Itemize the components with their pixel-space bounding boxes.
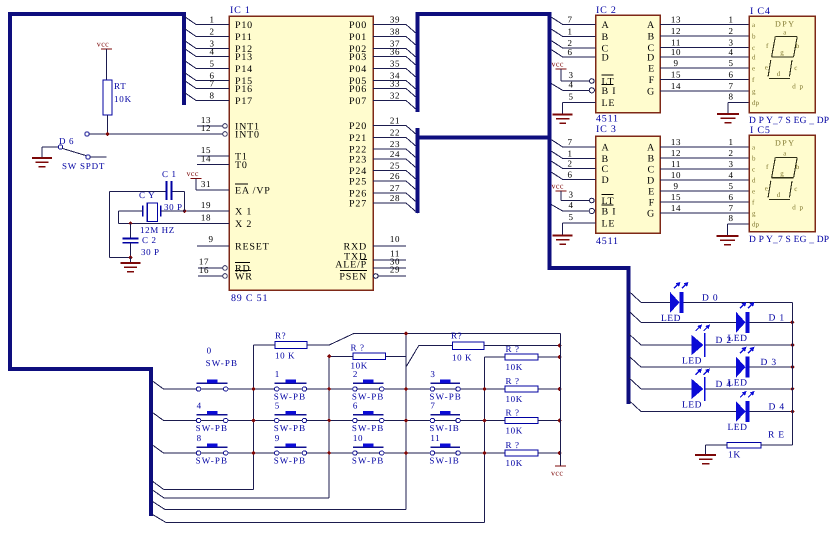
- node keypad junction: [327, 418, 331, 422]
- svg-text:C 2: C 2: [142, 235, 157, 245]
- label D 4: [769, 403, 785, 413]
- svg-text:10: 10: [390, 234, 400, 244]
- wire P00 pin 39: [373, 15, 418, 35]
- node keypad junction: [251, 387, 255, 391]
- pin label ALE/P: [335, 260, 367, 271]
- svg-text:29: 29: [390, 265, 400, 275]
- diode D2 LED: [692, 325, 711, 358]
- svg-text:24: 24: [390, 149, 400, 159]
- svg-text:4511: 4511: [596, 236, 619, 247]
- pin label EA/VP: [235, 184, 271, 197]
- pin label IC2 D: [602, 53, 610, 64]
- svg-text:d: d: [777, 191, 781, 199]
- ground for IC2 LE: [553, 103, 573, 124]
- svg-text:P20: P20: [349, 121, 367, 132]
- wire IC2 LT pin 3: [561, 70, 590, 81]
- node LED rail junction 1: [790, 320, 794, 324]
- wire column 1 vertical: [253, 345, 255, 489]
- pin label IC3 A: [602, 143, 610, 154]
- svg-text:6: 6: [567, 47, 572, 57]
- svg-text:8: 8: [728, 213, 733, 223]
- pin label IC3 B: [602, 154, 609, 165]
- label SW-PB 10: [352, 456, 385, 466]
- label 10K col2: [351, 361, 368, 371]
- svg-text:1K: 1K: [728, 451, 741, 461]
- label D 1: [769, 313, 785, 323]
- label key 6: [353, 401, 358, 411]
- diode D0 LED: [670, 282, 689, 313]
- wire P26 pin 27: [373, 183, 418, 203]
- wire INT0 pin 12 from switch: [89, 123, 223, 134]
- svg-text:e: e: [752, 188, 755, 196]
- label D 2: [716, 336, 732, 346]
- wire IC5 dp pin 8 to ground: [728, 213, 750, 236]
- svg-text:c: c: [794, 185, 798, 193]
- svg-text:D P Y_7 S EG _ DP: D P Y_7 S EG _ DP: [749, 235, 829, 245]
- label key 11: [430, 433, 440, 443]
- wire IC2 input A pin 7: [551, 15, 595, 25]
- label IC5: [750, 125, 771, 136]
- svg-text:2: 2: [728, 26, 733, 36]
- label key 1: [275, 369, 280, 379]
- wire P25 pin 26: [373, 171, 418, 191]
- wire LED row 2: [629, 311, 792, 322]
- svg-text:22: 22: [390, 128, 400, 138]
- svg-text:e: e: [765, 64, 769, 72]
- switch SW4: [196, 411, 227, 423]
- node LED rail junction 3: [790, 365, 794, 369]
- svg-text:12: 12: [671, 26, 681, 36]
- svg-text:12M HZ: 12M HZ: [140, 225, 175, 235]
- bus: P0 bus to IC2 and main vertical bus to IC3/LEDs: [418, 14, 629, 404]
- switch SW1: [275, 380, 307, 392]
- svg-text:14: 14: [201, 154, 211, 164]
- svg-text:33: 33: [390, 79, 400, 89]
- wire column 3 vertical: [405, 334, 407, 510]
- svg-text:10K: 10K: [351, 361, 368, 371]
- label DPY inside IC4: [775, 20, 796, 29]
- pin label P24: [349, 166, 367, 177]
- pin label IC3 out E: [648, 187, 655, 198]
- wire IC3 D to IC5 pin 4: [660, 170, 749, 180]
- svg-text:e: e: [752, 65, 755, 73]
- wire C1 top rail: [110, 192, 185, 212]
- node keypad junction: [404, 418, 408, 422]
- svg-text:IC 2: IC 2: [596, 5, 617, 16]
- svg-text:d: d: [752, 177, 756, 185]
- switch SW0: [196, 380, 227, 392]
- switch SW8: [196, 444, 227, 456]
- svg-text:10 K: 10 K: [275, 351, 295, 361]
- wire IC3 A to IC5 pin 1: [660, 137, 749, 147]
- label SW-PB 3: [429, 392, 462, 402]
- svg-text:D 0: D 0: [702, 293, 718, 303]
- label key 9: [275, 433, 280, 443]
- pin label IC3 LT: [602, 195, 615, 208]
- wire return 1: [153, 481, 254, 489]
- svg-text:P17: P17: [235, 96, 253, 107]
- label LED 5: [728, 423, 748, 433]
- label IC1: [230, 5, 251, 16]
- pin bubble RD: [223, 266, 228, 271]
- label SW-PB 9: [274, 456, 307, 466]
- pin label RESET: [235, 242, 270, 253]
- svg-text:15: 15: [671, 70, 681, 80]
- pin label X2: [235, 219, 252, 230]
- svg-text:12: 12: [671, 148, 681, 158]
- svg-text:3: 3: [728, 159, 733, 169]
- wire IC2 input C pin 2: [551, 38, 595, 48]
- svg-text:f: f: [766, 163, 769, 171]
- wire IC2 D to IC4 pin 4: [660, 47, 749, 57]
- svg-text:32: 32: [390, 91, 400, 101]
- svg-text:b: b: [752, 33, 756, 41]
- svg-text:I C5: I C5: [750, 125, 771, 136]
- svg-text:5: 5: [209, 59, 214, 69]
- wire P13 pin 4: [185, 47, 230, 57]
- pin label P04: [349, 64, 367, 75]
- svg-text:R ?: R ?: [506, 344, 520, 354]
- svg-text:g: g: [780, 49, 784, 57]
- wire return 3: [153, 502, 407, 510]
- svg-text:F: F: [649, 75, 655, 86]
- svg-text:23: 23: [390, 139, 400, 149]
- svg-text:dp: dp: [752, 99, 760, 107]
- pin label IC2 out G: [647, 87, 655, 98]
- wire IC3 LE pin 5: [563, 212, 596, 223]
- wire IC3 B to IC5 pin 2: [660, 148, 749, 158]
- svg-text:3: 3: [568, 70, 573, 80]
- svg-text:2: 2: [209, 27, 214, 37]
- node D6 throw lower: [86, 155, 107, 159]
- svg-text:R?: R?: [451, 331, 462, 341]
- wire IC3 C to IC5 pin 3: [660, 159, 749, 169]
- svg-text:30 P: 30 P: [141, 247, 160, 257]
- svg-text:8: 8: [209, 91, 214, 101]
- svg-text:a: a: [783, 29, 787, 37]
- wire IC2 B to IC4 pin 2: [660, 26, 749, 36]
- wire X1 pin 19: [185, 200, 230, 211]
- svg-text:SW-PB: SW-PB: [274, 456, 307, 466]
- svg-text:R ?: R ?: [506, 440, 520, 450]
- svg-text:P00: P00: [349, 20, 367, 31]
- label key 10: [353, 433, 363, 443]
- ground for RE: [695, 445, 716, 464]
- wire LED row 3: [629, 334, 792, 345]
- wire LED row 6: [629, 401, 792, 412]
- svg-text:5: 5: [275, 401, 280, 411]
- svg-text:C Y: C Y: [139, 190, 155, 200]
- svg-text:1: 1: [728, 15, 733, 25]
- svg-text:IC 3: IC 3: [596, 124, 617, 135]
- svg-text:D 2: D 2: [716, 336, 732, 346]
- switch SW7: [430, 411, 460, 423]
- label LED 2: [682, 357, 702, 367]
- svg-text:P13: P13: [235, 52, 253, 63]
- pin label P05: [349, 76, 367, 87]
- resistor RE: [706, 442, 793, 448]
- switch SW10: [353, 444, 384, 456]
- svg-text:SW-PB: SW-PB: [274, 423, 307, 433]
- svg-text:10K: 10K: [114, 94, 132, 104]
- svg-text:P04: P04: [349, 64, 367, 75]
- node keypad junction: [251, 451, 255, 455]
- label SW SPDT: [62, 161, 105, 171]
- svg-text:WR: WR: [235, 272, 253, 283]
- ground for crystal: [121, 258, 141, 272]
- label R? col2: [351, 343, 365, 353]
- node keypad junction: [482, 418, 486, 422]
- svg-text:21: 21: [390, 116, 400, 126]
- node R? col3 right junction: [557, 344, 561, 348]
- svg-text:vcc: vcc: [552, 182, 564, 191]
- svg-text:10K: 10K: [506, 426, 523, 436]
- ground for IC3 LE: [553, 223, 573, 244]
- svg-text:B I: B I: [602, 207, 617, 218]
- resistor R? row pull-up 1: [505, 354, 560, 360]
- wire IC3 LT pin 3: [561, 190, 590, 201]
- svg-text:10: 10: [671, 170, 681, 180]
- svg-text:A: A: [647, 143, 655, 154]
- svg-text:P21: P21: [349, 133, 367, 144]
- label D 0: [702, 293, 718, 303]
- node rail junction row 4: [557, 451, 561, 455]
- svg-text:d: d: [777, 70, 781, 78]
- IC U3: 4511 BCD decoder IC3 body: [596, 136, 661, 233]
- wire INT1 pin 13: [197, 115, 223, 126]
- pin label P16: [235, 84, 253, 95]
- power vcc for EA pin 31: [187, 169, 202, 190]
- wire keypad row 1: [153, 381, 506, 389]
- segment letters IC4: [752, 21, 760, 107]
- svg-text:3: 3: [568, 190, 573, 200]
- label D 4: [716, 380, 732, 390]
- wire IC3 E to IC5 pin 5: [660, 181, 749, 191]
- label C2: [142, 235, 157, 245]
- svg-text:a: a: [783, 150, 787, 158]
- wire IC3 input A pin 7: [551, 137, 595, 147]
- svg-text:SW-IB: SW-IB: [429, 456, 460, 466]
- switch D6 SPDT common contact: [58, 145, 62, 149]
- svg-text:7: 7: [728, 203, 733, 213]
- label SW-PB 2: [352, 392, 385, 402]
- wire RT bottom to INT0 net: [107, 115, 109, 134]
- wire IC2 input D pin 6: [551, 47, 595, 57]
- svg-text:P10: P10: [235, 20, 253, 31]
- label LED 0: [661, 314, 681, 324]
- wire keypad vcc rail: [560, 334, 562, 466]
- wire IC3 input D pin 6: [551, 170, 595, 180]
- wire TXD pin 11: [373, 249, 406, 261]
- svg-text:P11: P11: [235, 32, 253, 43]
- label 10K row 3: [506, 426, 523, 436]
- node rail junction col3: [404, 331, 408, 335]
- pin label P07: [349, 96, 367, 107]
- svg-text:RESET: RESET: [235, 242, 270, 253]
- switch SW5: [275, 411, 307, 423]
- label SW-PB 4: [196, 423, 229, 433]
- svg-text:D 1: D 1: [769, 313, 785, 323]
- pin label P27: [349, 199, 367, 210]
- label C1: [162, 169, 177, 179]
- svg-text:1: 1: [209, 15, 214, 25]
- pin label IC3 out B: [648, 154, 655, 165]
- svg-text:12: 12: [201, 123, 211, 133]
- node rail junction row 2: [557, 387, 561, 391]
- wire P17 pin 8: [185, 91, 230, 101]
- ground for IC5 dp: [717, 236, 739, 245]
- svg-text:C 1: C 1: [162, 169, 177, 179]
- svg-text:11: 11: [671, 159, 681, 169]
- node LED rail junction 2: [790, 343, 794, 347]
- pin label P15: [235, 76, 253, 87]
- svg-text:c: c: [752, 44, 755, 52]
- svg-text:g: g: [752, 88, 756, 96]
- svg-text:1: 1: [275, 369, 280, 379]
- wire P10 pin 1: [185, 15, 230, 25]
- svg-text:4: 4: [568, 200, 573, 210]
- wire P07 pin 32: [373, 91, 418, 111]
- svg-text:0: 0: [207, 346, 212, 356]
- label SW-PB 5: [274, 423, 307, 433]
- svg-text:LE: LE: [602, 98, 616, 109]
- wire P01 pin 38: [373, 27, 418, 47]
- node keypad junction: [482, 387, 486, 391]
- wire IC2 input B pin 1: [551, 27, 595, 37]
- svg-text:13: 13: [671, 15, 681, 25]
- svg-text:dp: dp: [752, 221, 760, 229]
- wire P14 pin 5: [185, 59, 230, 69]
- label 1K: [728, 451, 741, 461]
- wire ALE/P pin 30: [373, 257, 406, 269]
- pin label IC2 out A: [647, 20, 655, 31]
- svg-text:vcc: vcc: [187, 169, 199, 178]
- svg-text:27: 27: [390, 183, 400, 193]
- wire keypad row 2: [153, 413, 506, 421]
- pin bubble INT1: [223, 124, 228, 129]
- node ground junction: [128, 255, 132, 259]
- seven segment digit IC5: [765, 150, 804, 212]
- svg-text:E: E: [648, 187, 655, 198]
- svg-text:LED: LED: [728, 423, 748, 433]
- node keypad junction: [327, 387, 331, 391]
- svg-text:4: 4: [197, 401, 202, 411]
- svg-text:P06: P06: [349, 84, 367, 95]
- label R? row 1: [506, 344, 520, 354]
- svg-text:e: e: [765, 185, 769, 193]
- pin bubble IC2 BI: [589, 88, 594, 93]
- svg-text:R ?: R ?: [506, 376, 520, 386]
- svg-text:10K: 10K: [506, 458, 523, 468]
- svg-text:LED: LED: [682, 357, 702, 367]
- svg-text:I C4: I C4: [750, 6, 771, 17]
- resistor R? row pull-up 4: [505, 450, 560, 456]
- svg-text:6: 6: [567, 170, 572, 180]
- node LED rail junction 4: [790, 387, 794, 391]
- svg-text:25: 25: [390, 161, 400, 171]
- switch SW6: [353, 411, 384, 423]
- label 30P for C1: [164, 202, 183, 212]
- svg-text:36: 36: [390, 47, 400, 57]
- svg-text:ALE/P: ALE/P: [335, 260, 367, 271]
- pin label X1: [235, 207, 252, 218]
- svg-text:F: F: [649, 198, 655, 209]
- switch SW3: [430, 380, 460, 392]
- pin label P22: [349, 145, 367, 156]
- ground for switch D6: [32, 147, 58, 167]
- pin label P01: [349, 32, 367, 43]
- pin label P17: [235, 96, 253, 107]
- svg-text:6: 6: [728, 192, 733, 202]
- resistor R? row pull-up 3: [505, 417, 560, 423]
- pin label IC3 out A: [647, 143, 655, 154]
- svg-text:5: 5: [728, 181, 733, 191]
- svg-text:3: 3: [728, 38, 733, 48]
- pin label P06: [349, 84, 367, 95]
- wire IC3 F to IC5 pin 6: [660, 192, 749, 202]
- wire P02 pin 37: [373, 39, 418, 59]
- wire crystal left to X2 net: [118, 211, 143, 223]
- svg-text:b: b: [796, 163, 800, 171]
- label key 2: [353, 369, 358, 379]
- wire IC2 G to IC4 pin 7: [660, 81, 749, 91]
- wire RD pin 17: [198, 257, 223, 269]
- label RT 10K: [114, 81, 132, 104]
- wire IC3 G to IC5 pin 7: [660, 203, 749, 213]
- wire Rr1 left to column 4: [485, 356, 506, 358]
- node keypad junction: [327, 451, 331, 455]
- wire return 4: [153, 515, 485, 523]
- svg-text:P25: P25: [349, 177, 367, 188]
- wire IC4 dp pin 8 to ground: [728, 92, 749, 115]
- wire column 4 vertical: [484, 357, 486, 523]
- label SW-PB 8: [196, 456, 229, 466]
- pin label TXD: [344, 252, 367, 263]
- svg-text:X 1: X 1: [235, 207, 252, 218]
- wire P11 pin 2: [185, 27, 230, 37]
- pin label P03: [349, 52, 367, 63]
- node rail junction row 1: [557, 355, 561, 359]
- svg-text:A: A: [647, 20, 655, 31]
- svg-text:P27: P27: [349, 199, 367, 210]
- label SW-PB 11: [429, 456, 460, 466]
- svg-text:16: 16: [199, 265, 209, 275]
- pin label IC2 B: [602, 32, 609, 43]
- node rail junction row 3: [557, 418, 561, 422]
- svg-text:5: 5: [568, 92, 573, 102]
- label 10K row 1: [506, 362, 523, 372]
- wire P03 pin 36: [373, 47, 418, 67]
- svg-text:89 C 51: 89 C 51: [231, 293, 268, 304]
- svg-text:SW-PB: SW-PB: [352, 423, 385, 433]
- svg-text:E: E: [648, 64, 655, 75]
- label 10K col1: [275, 351, 295, 361]
- capacitor C2: [123, 223, 139, 257]
- wire P24 pin 25: [373, 161, 418, 181]
- pin label IC2 out D: [647, 53, 655, 64]
- svg-text:RT: RT: [114, 81, 127, 91]
- seven segment digit IC4: [765, 29, 804, 91]
- svg-text:G: G: [647, 87, 655, 98]
- node keypad junction: [482, 451, 486, 455]
- pin label P23: [349, 155, 367, 166]
- pin bubble WR: [223, 274, 228, 279]
- pin bubble INT0: [223, 132, 228, 137]
- svg-text:f: f: [766, 42, 769, 50]
- svg-text:A: A: [602, 20, 610, 31]
- svg-text:B I: B I: [602, 86, 617, 97]
- pin label IC2 BI: [602, 84, 617, 97]
